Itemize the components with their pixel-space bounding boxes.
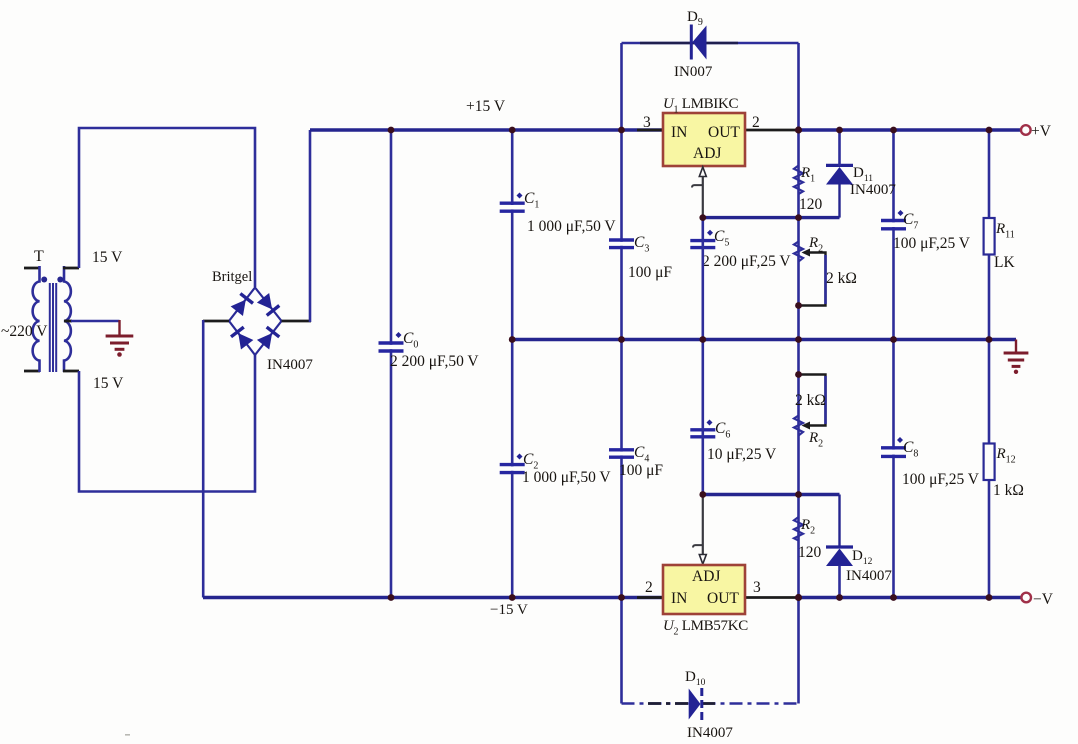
- transformer polarity dot primary: [41, 277, 47, 283]
- svg-text:T: T: [34, 248, 44, 265]
- bridge diode top-right: [257, 293, 280, 316]
- svg-text:100 μF,25 V: 100 μF,25 V: [902, 471, 980, 488]
- potentiometer R2 lower: [794, 375, 826, 436]
- capacitor C4: [609, 450, 634, 457]
- capacitor C5: [690, 230, 715, 248]
- wire C3 C4 column with D9 and D10 loop left side: [620, 43, 623, 704]
- svg-text:R2: R2: [808, 430, 823, 450]
- svg-text:120: 120: [799, 196, 823, 213]
- transformer T primary winding: [33, 266, 40, 372]
- wire black into U1 IN pin: [637, 129, 664, 132]
- svg-text:Britgel: Britgel: [212, 269, 252, 285]
- svg-text:+V: +V: [1031, 123, 1052, 140]
- node +15 V rail: [310, 128, 664, 131]
- wire C1 C2 column: [511, 130, 514, 598]
- ground at transformer center tap: [106, 320, 134, 349]
- wire R11 R12 column: [988, 130, 991, 598]
- wire black into U2 IN pin: [637, 596, 664, 599]
- diode D12: [826, 495, 853, 598]
- transformer T primary terminal top-left: [24, 267, 40, 270]
- svg-text:−15 V: −15 V: [490, 602, 528, 618]
- diode D11: [826, 130, 853, 218]
- svg-text:2 kΩ: 2 kΩ: [795, 392, 826, 409]
- wire black U1 OUT pin: [744, 129, 799, 132]
- svg-text:2 200 μF,50 V: 2 200 μF,50 V: [390, 353, 479, 370]
- svg-text:IN4007: IN4007: [687, 725, 733, 741]
- resistor R1: [794, 166, 803, 195]
- svg-text:10 μF,25 V: 10 μF,25 V: [707, 446, 777, 463]
- svg-text:D9: D9: [687, 9, 703, 28]
- svg-text:C1: C1: [524, 190, 539, 211]
- svg-text:100 μF,25 V: 100 μF,25 V: [893, 235, 971, 252]
- svg-text:R12: R12: [996, 446, 1016, 466]
- svg-text:120: 120: [798, 544, 822, 561]
- svg-text:~220 V: ~220 V: [1, 323, 48, 340]
- svg-text:IN: IN: [671, 590, 687, 607]
- svg-text:2 kΩ: 2 kΩ: [826, 270, 857, 287]
- wire U1 ADJ node line: [703, 216, 840, 219]
- svg-text:15 V: 15 V: [92, 249, 123, 266]
- U2 ADJ arrow: [693, 495, 706, 565]
- svg-text:2 200 μF,25 V: 2 200 μF,25 V: [702, 253, 791, 270]
- svg-text:D12: D12: [852, 548, 873, 567]
- terminal +V: [1021, 125, 1031, 135]
- terminal -V: [1021, 593, 1031, 603]
- junction dots mid rail: [509, 336, 993, 343]
- transformer T secondary winding: [64, 266, 71, 372]
- transformer T core: [50, 283, 56, 372]
- transformer secondary terminal bottom-right: [63, 370, 79, 373]
- svg-text:C3: C3: [634, 234, 649, 255]
- wire U2 ADJ node line: [703, 493, 840, 496]
- svg-text:+15 V: +15 V: [466, 98, 506, 115]
- resistor R2 lower 120: [794, 517, 803, 541]
- svg-text:3: 3: [643, 114, 651, 131]
- svg-text:2: 2: [752, 114, 760, 131]
- svg-text:IN: IN: [671, 124, 687, 141]
- svg-text:IN007: IN007: [674, 64, 713, 80]
- svg-text:15 V: 15 V: [93, 375, 124, 392]
- wire D10 loop bottom dashed: [622, 702, 799, 705]
- wire bridge right vertex stub: [282, 320, 312, 323]
- bridge rectifier diamond: [229, 288, 282, 356]
- transformer polarity dot secondary: [57, 277, 63, 283]
- wire bridge left vertex down to -15V rail: [202, 320, 205, 598]
- junction dots R2 wiper loops: [795, 302, 802, 378]
- wire C7 C8 column: [892, 130, 895, 598]
- svg-text:C5: C5: [714, 228, 729, 249]
- capacitor C2: [500, 454, 525, 473]
- wire bridge left vertex stub: [203, 320, 229, 323]
- wire R1 R2 column with D9 D10 loop right side: [797, 43, 800, 704]
- svg-text:IN4007: IN4007: [850, 182, 896, 198]
- svg-text:100 μF: 100 μF: [619, 462, 663, 479]
- svg-text:D10: D10: [685, 669, 706, 688]
- potentiometer R2 upper: [794, 242, 826, 306]
- wire black U2 OUT pin: [744, 596, 799, 599]
- capacitor C6: [690, 420, 715, 437]
- capacitor C1: [500, 193, 525, 212]
- svg-text:1 000 μF,50 V: 1 000 μF,50 V: [527, 218, 616, 235]
- op-amp U1 regulator box: [663, 113, 745, 166]
- node -15 V rail: [203, 596, 664, 599]
- svg-text:ADJ: ADJ: [693, 145, 721, 162]
- speck bottom-left: [125, 734, 130, 736]
- junction dots top rail: [388, 126, 993, 133]
- svg-text:C0: C0: [403, 330, 418, 351]
- wire C6 column (mid rail to lower ADJ node): [701, 340, 704, 495]
- svg-text:IN4007: IN4007: [267, 357, 313, 373]
- capacitor C3: [609, 240, 634, 248]
- ground at mid rail right: [1004, 340, 1029, 367]
- resistor R12: [984, 444, 995, 481]
- transformer T primary terminal bottom-left: [24, 370, 40, 373]
- svg-text:C6: C6: [715, 420, 730, 441]
- junction dots ADJ nodes: [699, 214, 802, 498]
- svg-text:ADJ: ADJ: [692, 568, 720, 585]
- wire transformer top loop to bridge top: [79, 128, 255, 287]
- resistor R11: [984, 218, 995, 255]
- svg-text:OUT: OUT: [707, 590, 739, 607]
- wire C5 column (ADJ node to mid rail): [701, 218, 704, 340]
- svg-text:R11: R11: [995, 221, 1015, 241]
- diode D9: [691, 25, 706, 60]
- op-amp U2 regulator box: [663, 565, 745, 614]
- bridge diode bottom-left: [231, 327, 253, 350]
- svg-text:U2 LMB57KC: U2 LMB57KC: [663, 618, 748, 638]
- node +V output rail: [797, 128, 1021, 131]
- svg-text:IN4007: IN4007: [846, 568, 892, 584]
- node -V output rail: [797, 596, 1021, 599]
- wire center tap to ground: [64, 320, 72, 323]
- wire bridge right vertex up to +15V rail: [309, 130, 312, 322]
- diode D10: [689, 688, 702, 721]
- wire C0 column: [390, 130, 393, 598]
- bridge diode top-left: [230, 294, 253, 317]
- capacitor C7: [881, 210, 906, 229]
- U1 ADJ arrow: [692, 167, 706, 218]
- svg-text:2: 2: [645, 579, 653, 596]
- transformer secondary terminal top-right: [63, 267, 79, 270]
- junction dots bottom rail: [388, 594, 993, 601]
- svg-text:−V: −V: [1033, 591, 1054, 608]
- svg-text:3: 3: [753, 579, 761, 596]
- capacitor C8: [881, 437, 906, 456]
- svg-text:LK: LK: [994, 254, 1015, 271]
- wire transformer bottom loop to bridge bottom: [79, 355, 255, 492]
- svg-text:1 000 μF,50 V: 1 000 μF,50 V: [522, 469, 611, 486]
- bridge diode bottom-right: [257, 327, 280, 350]
- capacitor C0: [379, 332, 404, 351]
- node mid ground rail: [512, 338, 1016, 341]
- svg-text:OUT: OUT: [708, 124, 740, 141]
- svg-text:100 μF: 100 μF: [628, 264, 672, 281]
- svg-text:1 kΩ: 1 kΩ: [993, 482, 1024, 499]
- wire D9 loop top: [622, 42, 799, 45]
